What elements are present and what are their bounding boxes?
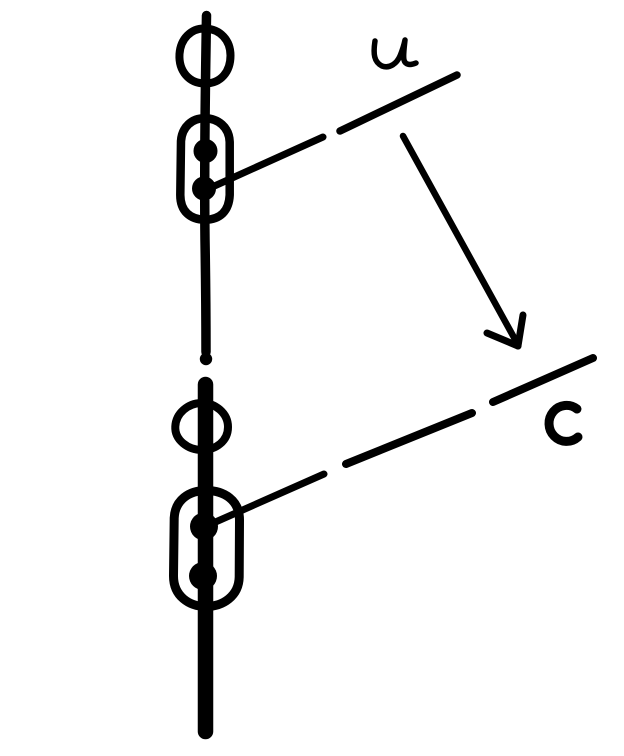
upper dot 1 <box>194 139 218 163</box>
dash of u label line <box>340 75 457 131</box>
lower chromosome thick axis line <box>198 385 214 732</box>
label u <box>374 40 416 67</box>
upper circle (satellite knob) <box>179 28 230 83</box>
lower dot 1 <box>190 513 218 541</box>
leader line from upper dot 2 <box>210 137 323 188</box>
arrowhead upper barb <box>518 315 523 346</box>
label c <box>549 405 578 441</box>
upper chromosome axis line <box>205 16 207 353</box>
middle dash of c label line <box>346 413 472 464</box>
upper dash of c label line <box>493 358 593 402</box>
arrowhead left barb <box>487 333 518 346</box>
arrow shaft u to c <box>403 136 517 343</box>
upper centromere oblong <box>180 118 229 219</box>
lower circle (satellite knob) <box>175 403 228 450</box>
upper dot 2 <box>192 177 216 201</box>
lower centromere oval <box>174 491 240 607</box>
upper axis end dot <box>200 353 212 365</box>
leader line from lower dot 1 <box>211 474 324 524</box>
lower dot 2 <box>189 562 217 590</box>
